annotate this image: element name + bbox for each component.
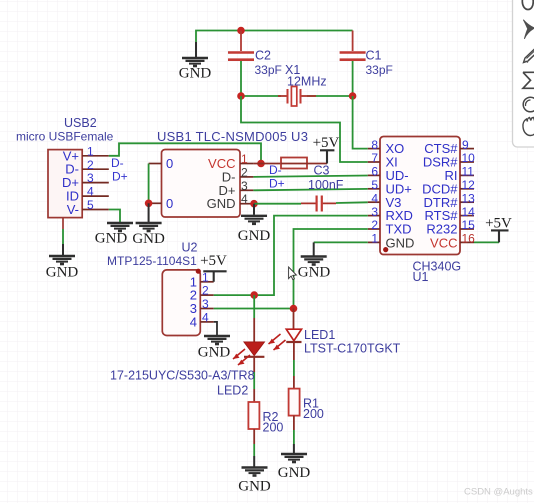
svg-text:+5V: +5V	[485, 216, 512, 232]
svg-text:D+: D+	[112, 170, 128, 184]
USB2 pin 4	[82, 195, 109, 197]
junction at C2 top	[237, 27, 245, 35]
svg-text:GND: GND	[386, 235, 415, 250]
ground symbol (U2 pin4)	[198, 336, 231, 361]
svg-text:2: 2	[202, 284, 209, 298]
U1 pin 3	[368, 215, 380, 217]
svg-text:VCC: VCC	[430, 235, 457, 250]
wire: USB2 pin1 V+ to +5V net junction	[109, 143, 261, 163]
wire: U2 pin2 to RXD net	[214, 294, 255, 296]
icon: polyline tool	[523, 72, 534, 88]
U1 pin 8	[368, 148, 380, 150]
svg-text:4: 4	[87, 185, 94, 199]
U3 left pin (bottom)	[149, 202, 162, 204]
svg-text:GND: GND	[238, 228, 271, 244]
U1 pin 2	[368, 228, 380, 230]
svg-text:U2: U2	[182, 241, 198, 255]
wire: U2 pin3 to TXD net	[214, 308, 294, 310]
svg-text:GND: GND	[207, 196, 236, 211]
fuse F1	[281, 158, 307, 169]
crystal X1 12MHz	[278, 63, 327, 106]
U1 pin 12	[460, 188, 474, 190]
svg-text:11: 11	[462, 165, 475, 179]
ground symbol (USB2 shell)	[46, 256, 79, 281]
svg-text:5: 5	[87, 198, 94, 212]
svg-text:5: 5	[371, 178, 378, 192]
U1 pin 16 VCC	[460, 241, 474, 243]
U1 pin 9	[460, 148, 474, 150]
svg-text:1: 1	[241, 152, 248, 166]
wire: D- net U3 pin2 to U1 UD-	[253, 176, 367, 177]
wire: U3 left pins to ground	[148, 164, 150, 204]
svg-text:4: 4	[202, 311, 209, 325]
svg-text:33pF: 33pF	[366, 63, 393, 77]
svg-text:9: 9	[462, 138, 469, 152]
icon: arc tool	[522, 0, 533, 10]
wire: U1 RXD to U2 pin2 / LED2	[254, 216, 368, 296]
U1 pin 15	[460, 228, 474, 230]
junction LED2 top	[250, 291, 258, 299]
wire: U1 pin16 to +5V	[474, 241, 499, 243]
toolbar	[513, 0, 534, 147]
svg-text:C2: C2	[255, 49, 271, 63]
svg-text:V-: V-	[67, 202, 79, 217]
U1 pin 1	[368, 241, 380, 243]
ground symbol (U1 GND)	[298, 257, 331, 281]
svg-text:TXD: TXD	[386, 222, 412, 237]
wire: U3 pin4 to C3	[254, 203, 301, 205]
svg-text:2: 2	[87, 158, 94, 172]
svg-text:GND: GND	[179, 66, 212, 82]
svg-text:1: 1	[202, 270, 209, 284]
U2 anchor dot	[196, 269, 201, 274]
ground symbol (U3 pin4)	[238, 204, 271, 244]
svg-text:16: 16	[462, 232, 476, 246]
U1 pin 7	[368, 161, 380, 163]
wire: USB2 pin5 V- to ground	[109, 210, 120, 223]
svg-text:12MHz: 12MHz	[287, 75, 327, 89]
ground symbol (U3 left)	[132, 223, 165, 247]
icon: pencil tool	[524, 49, 534, 63]
svg-text:D-: D-	[111, 156, 124, 170]
svg-text:GND: GND	[198, 345, 231, 361]
junction at U3 pin4	[250, 200, 258, 208]
U1 pin 13	[460, 201, 474, 203]
ground symbol (R2)	[238, 468, 271, 495]
ground symbol (top, crystal net)	[179, 42, 212, 82]
svg-text:4: 4	[371, 191, 378, 205]
svg-text:10: 10	[462, 151, 476, 165]
svg-text:D+: D+	[269, 177, 285, 191]
svg-text:3: 3	[371, 205, 378, 219]
+5V symbol (U2 pin1)	[200, 253, 227, 282]
svg-text:GND: GND	[46, 265, 79, 281]
svg-text:CSDN @Aughts: CSDN @Aughts	[464, 487, 533, 498]
svg-text:1: 1	[371, 232, 378, 246]
svg-text:MTP125-1104S1: MTP125-1104S1	[107, 254, 197, 268]
svg-text:3: 3	[87, 171, 94, 185]
wire: D+ net U3 pin3 to U1 UD+	[253, 189, 367, 190]
svg-text:GND: GND	[278, 465, 311, 481]
svg-text:3: 3	[241, 179, 248, 193]
svg-text:0: 0	[166, 196, 173, 211]
svg-text:R232: R232	[426, 222, 457, 237]
resistor R2	[248, 402, 283, 467]
svg-text:U1: U1	[413, 270, 429, 284]
svg-text:15: 15	[462, 218, 476, 232]
svg-text:GND: GND	[238, 479, 271, 495]
LED1 arrows	[269, 334, 281, 344]
wire: crystal right to U1 XO	[353, 96, 368, 149]
icon: circle tool	[523, 97, 534, 112]
svg-text:7: 7	[371, 151, 378, 165]
U2 pin 2	[200, 294, 213, 296]
wire: U2 pin4 to ground	[214, 322, 217, 335]
svg-text:14: 14	[462, 205, 476, 219]
U1 anchor dot	[383, 247, 388, 252]
U1 pin 4	[368, 201, 380, 203]
U3 pin 1 VCC	[240, 163, 253, 165]
U3 pin 2	[240, 176, 253, 178]
svg-text:33pF: 33pF	[255, 63, 282, 77]
svg-text:100nF: 100nF	[308, 178, 344, 192]
svg-text:USB1 TLC-NSMD005 U3: USB1 TLC-NSMD005 U3	[157, 129, 308, 144]
mouse cursor	[289, 267, 297, 280]
wire: crystal left to U1 XI	[241, 96, 368, 162]
USB2 pin 1	[82, 155, 109, 157]
capacitor C3 100nF	[301, 164, 344, 212]
wire: U1 GND pin to ground	[314, 241, 368, 243]
U1 pin 11	[460, 174, 474, 176]
svg-text:+5V: +5V	[200, 253, 227, 269]
svg-text:C3: C3	[314, 164, 330, 178]
svg-text:200: 200	[303, 407, 324, 421]
resistor R1	[289, 389, 324, 454]
svg-text:2: 2	[241, 165, 248, 179]
+5V symbol (U3)	[313, 135, 340, 164]
+5V symbol (U1)	[485, 216, 512, 243]
svg-text:D-: D-	[269, 163, 282, 177]
U1 pin 10	[460, 161, 474, 163]
ground symbol (USB2 V-)	[95, 223, 133, 247]
svg-text:13: 13	[462, 191, 476, 205]
icon: arrow star tool	[524, 20, 534, 39]
U3 pin 3	[240, 189, 253, 191]
wire: U3 pin1 to fuse	[253, 163, 281, 165]
svg-text:12: 12	[462, 178, 476, 192]
junction on VCC wire	[257, 160, 265, 168]
svg-text:3: 3	[202, 297, 209, 311]
LED2 (yellow LED)	[110, 295, 264, 402]
svg-text:LED2: LED2	[217, 384, 248, 398]
U2 pin 1	[200, 281, 213, 283]
chip U3 TLC-NSMD005	[157, 129, 308, 217]
USB2 pin 3	[82, 182, 109, 184]
capacitor C1	[340, 31, 393, 97]
U3 pin 4 GND	[240, 203, 253, 205]
svg-text:2: 2	[371, 218, 378, 232]
U1 pin 14	[460, 215, 474, 217]
svg-text:GND: GND	[95, 231, 128, 247]
svg-text:17-215UYC/S530-A3/TR8: 17-215UYC/S530-A3/TR8	[110, 369, 255, 383]
USB2 pin 5	[82, 209, 109, 211]
junction at crystal left	[237, 92, 245, 100]
capacitor C2	[228, 31, 282, 97]
U1 pin 5	[368, 188, 380, 190]
svg-text:4: 4	[241, 192, 248, 206]
wire: USB2 shell to ground	[62, 218, 64, 230]
icon: drag hand tool	[523, 118, 534, 136]
LED1 LTST-C170TGKT	[269, 309, 401, 390]
switch U2 MTP125-1104S1	[107, 241, 200, 336]
svg-text:LTST-C170TGKT: LTST-C170TGKT	[304, 342, 401, 356]
U2 pin 3	[200, 308, 213, 310]
svg-text:GND: GND	[298, 265, 331, 281]
svg-text:USB2: USB2	[64, 116, 97, 130]
USB2 pin 2	[82, 168, 109, 170]
svg-text:0: 0	[166, 156, 173, 171]
svg-text:micro USBFemale: micro USBFemale	[16, 130, 114, 144]
wire: C3 to U1 V3	[336, 201, 368, 204]
wire: U1 TXD down to LED1 node	[294, 229, 368, 309]
U1 pin 6	[368, 174, 380, 176]
svg-text:1: 1	[87, 144, 94, 158]
chip U1 CH340G	[380, 137, 461, 285]
svg-text:+5V: +5V	[313, 135, 340, 151]
svg-text:4: 4	[190, 314, 197, 329]
svg-text:C1: C1	[366, 49, 382, 63]
ground symbol (R1)	[278, 454, 311, 481]
junction at crystal right	[349, 92, 357, 100]
LED2 arrows	[233, 349, 245, 359]
wire: fuse to +5V	[307, 163, 327, 165]
U2 pin 4	[200, 321, 213, 323]
U3 left pin (top)	[149, 163, 162, 165]
wire: crystal row	[241, 95, 353, 97]
junction LED1 top	[290, 305, 298, 313]
svg-text:6: 6	[371, 165, 378, 179]
svg-text:200: 200	[263, 421, 284, 435]
wire: top net GND to C2 top to C1 top	[196, 31, 353, 45]
svg-text:GND: GND	[132, 231, 165, 247]
svg-text:8: 8	[371, 138, 378, 152]
connector USB2 micro USBFemale	[16, 116, 114, 218]
svg-text:LED1: LED1	[304, 328, 335, 342]
